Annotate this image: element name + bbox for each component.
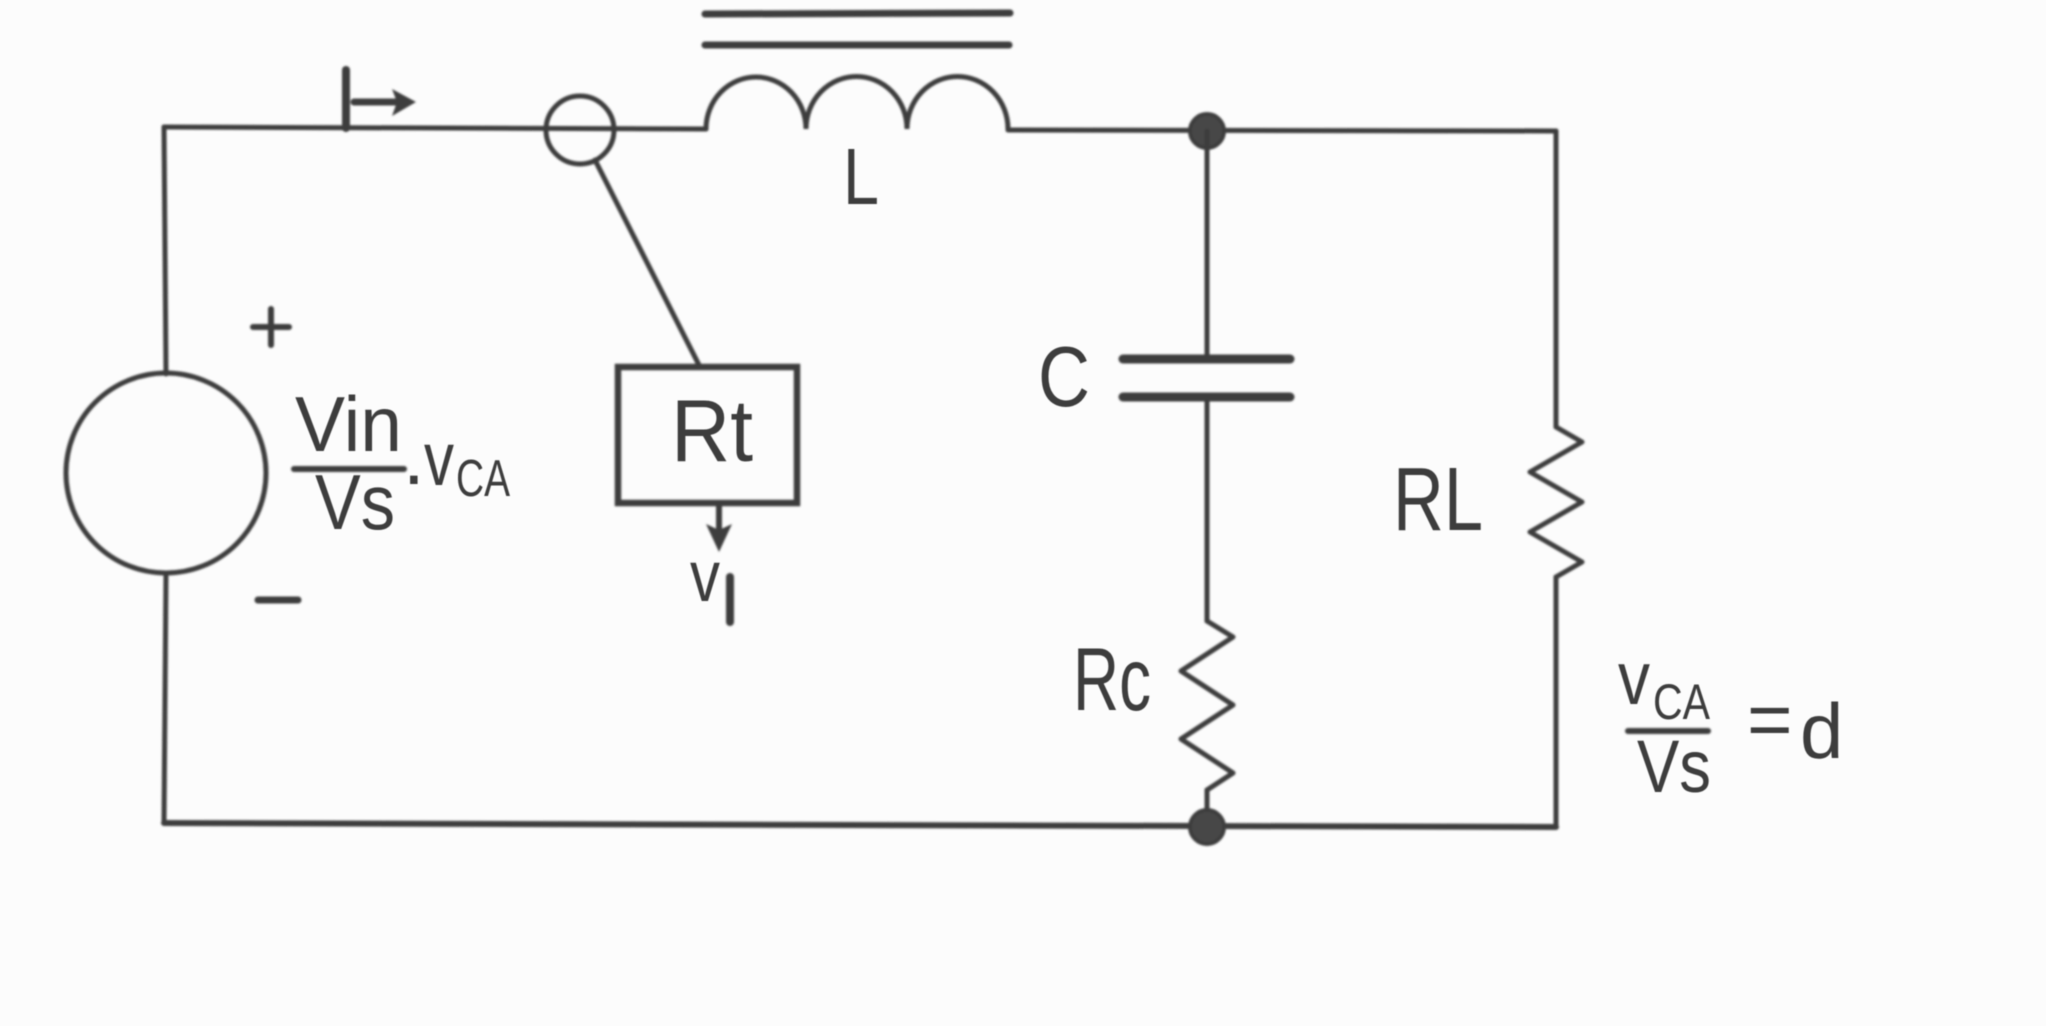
- arrow v_l below Rt: [716, 503, 722, 535]
- svg-text:CA: CA: [456, 450, 510, 508]
- fraction bar vCA/Vs right: [1628, 728, 1708, 734]
- svg-text:C: C: [1038, 330, 1090, 425]
- switch circle: [546, 96, 614, 164]
- current arrow i: [342, 70, 350, 128]
- capacitor C plate top: [1123, 355, 1290, 364]
- svg-text:Rc: Rc: [1073, 629, 1151, 729]
- svg-text:CA: CA: [1653, 674, 1711, 730]
- wire right vertical upper: [1554, 131, 1559, 427]
- switch diagonal arm: [595, 160, 700, 367]
- box Rt: [618, 367, 797, 503]
- wire top right from inductor to corner: [1008, 130, 1556, 131]
- inductor L winding: [706, 76, 1008, 129]
- svg-text:v: v: [690, 537, 720, 617]
- wire left vertical lower: [164, 573, 166, 823]
- fraction bar Vin/Vs: [294, 466, 404, 472]
- wire capacitor to Rc: [1205, 397, 1210, 621]
- wire bottom: [164, 823, 1556, 827]
- svg-text:L: L: [843, 132, 879, 221]
- svg-text:Vs: Vs: [1637, 725, 1711, 808]
- label v_l subscript bar: [726, 577, 734, 622]
- svg-text:d: d: [1800, 687, 1843, 775]
- svg-text:=: =: [1747, 675, 1793, 763]
- inductor core line 1: [705, 13, 1010, 14]
- wire Rc to bottom node: [1205, 790, 1210, 827]
- capacitor C plate bottom: [1123, 393, 1290, 402]
- wire top from left corner to inductor: [164, 127, 706, 129]
- wire left vertical upper: [164, 127, 166, 374]
- plus sign of source: [253, 324, 289, 330]
- inductor core line 2: [705, 42, 1009, 49]
- resistor RL zigzag: [1530, 427, 1582, 577]
- svg-text:v: v: [1618, 636, 1650, 720]
- voltage source circle: [66, 373, 266, 573]
- wire right vertical lower: [1554, 577, 1559, 827]
- resistor Rc zigzag: [1181, 621, 1233, 790]
- svg-text:Vs: Vs: [315, 458, 395, 546]
- node dot bottom: [1190, 810, 1224, 844]
- svg-text:Rt: Rt: [671, 381, 753, 480]
- node dot top: [1190, 114, 1224, 148]
- svg-text:RL: RL: [1393, 450, 1483, 550]
- svg-text:Vin: Vin: [295, 380, 402, 468]
- svg-text:v: v: [424, 417, 454, 502]
- minus sign of source: [258, 597, 298, 604]
- wire capacitor upper: [1205, 131, 1210, 359]
- svg-text:.: .: [403, 413, 425, 501]
